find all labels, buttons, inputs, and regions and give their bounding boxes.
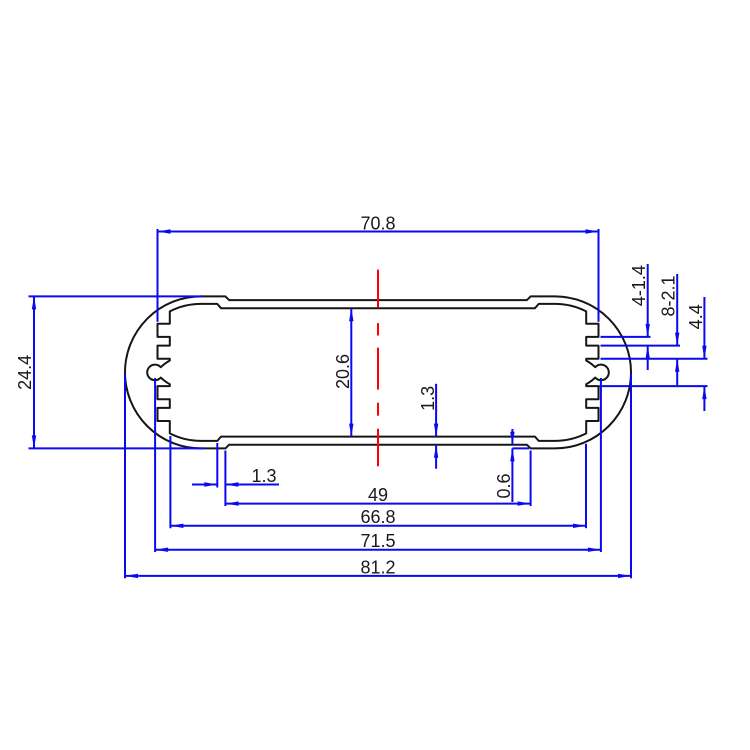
svg-text:8-2.1: 8-2.1 — [659, 275, 679, 316]
svg-text:24.4: 24.4 — [15, 355, 35, 390]
svg-text:20.6: 20.6 — [333, 354, 353, 389]
svg-text:81.2: 81.2 — [360, 557, 395, 577]
svg-text:4.4: 4.4 — [686, 304, 706, 329]
svg-text:1.3: 1.3 — [251, 466, 276, 486]
svg-text:4-1.4: 4-1.4 — [629, 265, 649, 306]
svg-text:49: 49 — [368, 485, 388, 505]
svg-text:0.6: 0.6 — [494, 473, 514, 498]
svg-text:1.3: 1.3 — [418, 386, 438, 411]
svg-text:71.5: 71.5 — [360, 531, 395, 551]
svg-text:66.8: 66.8 — [360, 507, 395, 527]
svg-text:70.8: 70.8 — [360, 213, 395, 233]
